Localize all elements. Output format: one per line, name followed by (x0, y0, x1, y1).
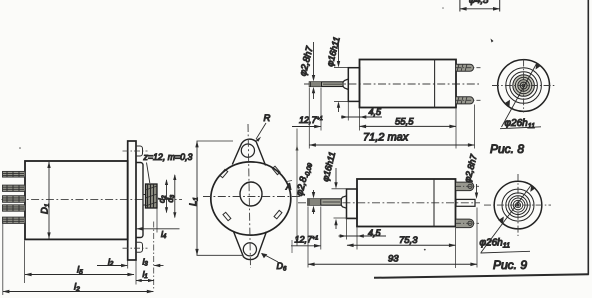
dimension 71.2 max fig8 (309, 143, 475, 147)
bottom ear hole (243, 243, 256, 256)
svg-text:75,3: 75,3 (399, 235, 418, 246)
dimension phi 2.8h7 fig8 (312, 42, 315, 99)
pin 5 (3, 217, 26, 223)
svg-text:71,2 max: 71,2 max (363, 132, 409, 144)
end view circles fig9 (494, 181, 542, 229)
svg-text:A: A (285, 183, 291, 192)
extension lines phi 4.5 (460, 0, 500, 12)
extension line pin tip down (2, 222, 4, 295)
shaft boss fig9 (341, 196, 346, 208)
horizontal axis of flange view (203, 196, 301, 198)
dimension D1 (body diameter) (47, 162, 50, 239)
pin 1 (3, 171, 26, 177)
bottom mounting ear (234, 232, 267, 260)
dimension 12.7 fig8 (292, 125, 321, 129)
front bearing block fig9 (347, 189, 358, 219)
shaft boss fig8 (343, 79, 348, 90)
dimension l5 (25, 273, 135, 277)
ink speck 3 (19, 147, 21, 149)
gear dimension d3 (outer vertical) (173, 174, 176, 218)
extension 12.7 fig9 (320, 207, 322, 250)
svg-text:4,5: 4,5 (368, 228, 382, 238)
dimension line phi 4.5 (460, 7, 500, 11)
flange ear column (side view) (128, 141, 136, 260)
shaft fig8 (309, 82, 343, 87)
motor body fig8 (360, 60, 457, 108)
extension rear shaft tip fig9 (476, 208, 478, 268)
extension lines 4.5 fig8 (348, 102, 359, 131)
dimension 4.5 fig8 (341, 115, 382, 118)
pin 4 (3, 205, 26, 211)
dimension 75.3 fig9 (347, 244, 456, 248)
body internal seam fig9 (433, 179, 435, 227)
ear hole centerline bottom (123, 247, 148, 249)
svg-text:Рuc. 9: Рuc. 9 (493, 258, 527, 272)
extension body right edge fig8 (455, 108, 457, 149)
svg-text:55,5: 55,5 (395, 117, 414, 128)
dimension phi 16h11 fig8 (334, 40, 348, 112)
dimension 93 fig9 (308, 263, 478, 267)
dimension phi 16h11 fig9 (332, 168, 356, 229)
vertical axis of flange view (248, 124, 251, 268)
frame horizontal bottom (374, 274, 589, 278)
pin 3 (3, 196, 26, 203)
svg-text:Рuc. 8: Рuc. 8 (490, 142, 524, 156)
dimension l3 small (154, 264, 164, 267)
terminal pin top fig8 (456, 64, 481, 71)
leader D6 (262, 254, 278, 263)
ink speck 1 (491, 39, 494, 43)
dimension L1 (ear hole spacing) (195, 141, 242, 256)
ear bump top (side view) (136, 146, 143, 156)
slot top-left (220, 169, 228, 177)
leader to gear from z=12 text (147, 163, 150, 184)
shaft fig9 (308, 199, 342, 205)
top mounting ear (232, 139, 265, 165)
extension lines 4.5 fig9 (347, 219, 358, 250)
dimension phi 2.8-0.09 fig9 (312, 190, 315, 214)
leader phi 26 fig8 (502, 64, 537, 128)
front bearing block fig8 (348, 68, 359, 102)
body internal seam fig8 (434, 60, 436, 108)
axis bottom motor (298, 202, 480, 204)
terminal pin bottom fig8 (456, 97, 481, 104)
ear hole centerline top (123, 150, 148, 152)
svg-text:R: R (264, 113, 271, 124)
leader R (256, 123, 266, 139)
flange plate (round part, side view) (136, 163, 143, 238)
frame vertical right (587, 0, 589, 275)
dimension 12.7 fig9 (291, 244, 321, 248)
svg-text:4,5: 4,5 (369, 107, 383, 117)
end view circles fig8 (513, 75, 535, 97)
pin 2 (3, 185, 26, 191)
flange disc (211, 162, 291, 235)
vertical extension line between figures (296, 129, 299, 247)
rear shaft fig9 (456, 199, 475, 206)
extension shaft tip fig8 (308, 88, 310, 149)
svg-text:z=12, m=0,3: z=12, m=0,3 (143, 152, 193, 162)
extension line flange right face down (135, 261, 137, 285)
svg-text:93: 93 (388, 254, 399, 265)
center bore (240, 182, 262, 206)
dimension l2 small (flange thickness) (97, 264, 128, 267)
extension line flange left face down (127, 261, 129, 269)
ear bump bottom (side view) (136, 242, 143, 252)
dimension l4 (136, 227, 179, 230)
gear dimension d2 (inner vertical) (165, 179, 168, 213)
svg-text:φ4,5: φ4,5 (469, 0, 489, 6)
output shaft stub (143, 195, 147, 206)
extension line from gear face (156, 209, 158, 233)
gear (pinion) with hatching (146, 184, 158, 208)
dimension 4.5 fig9 (339, 234, 387, 237)
dimension l2 overall (2, 290, 153, 294)
terminal pin top fig9 (456, 182, 479, 191)
slot bottom-left (223, 212, 231, 220)
axis top motor (304, 83, 479, 85)
slot top-right (272, 166, 280, 174)
extension line left body edge down (24, 241, 26, 284)
extension body right edge fig9 (455, 227, 457, 268)
extension terminal tip fig8 (474, 105, 476, 149)
motor body outline (25, 161, 128, 239)
leader phi 26 fig9 (481, 186, 531, 253)
slot bottom-right (274, 210, 282, 218)
terminal pin bottom fig9 (456, 219, 479, 228)
ink speck 2 (424, 249, 426, 251)
centerline (axis) of left view (2, 199, 183, 201)
end view axes fig9 (484, 204, 551, 206)
end view axes fig8 (492, 85, 556, 87)
dimension 55.5 fig8 (359, 125, 456, 129)
motor body fig9 (357, 179, 456, 227)
extension shaft tip fig9 (307, 207, 309, 268)
top ear hole (241, 144, 254, 157)
dimension l1 small (136, 279, 154, 282)
gear end plane (dash-dot vertical) (153, 222, 155, 290)
extension line 12.7 fig8 (320, 88, 322, 131)
leader phi 2.8h7 fig9 (475, 184, 478, 199)
